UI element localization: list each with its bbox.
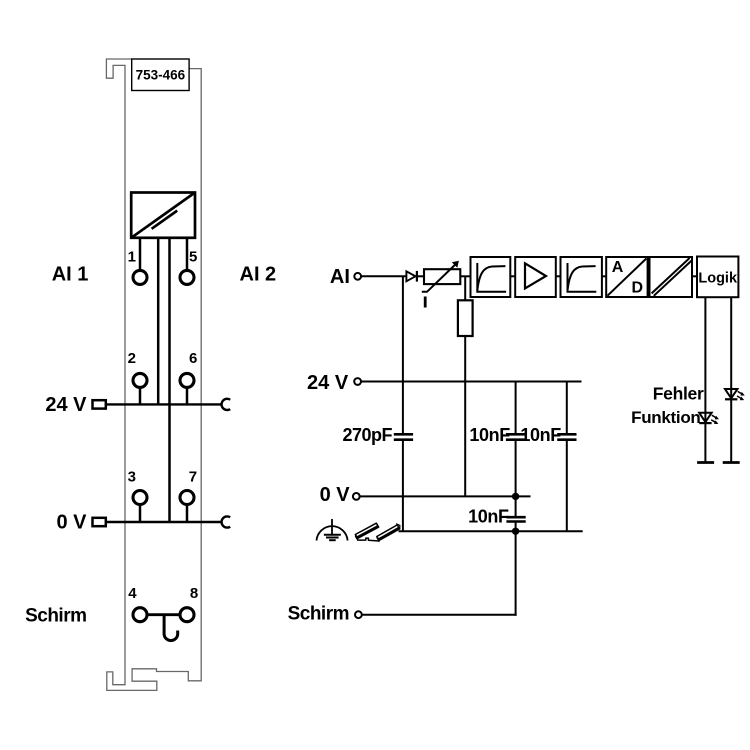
wire stub 1-2 [510,275,515,277]
wire AI to diode [361,275,406,277]
svg-text:Schirm: Schirm [288,604,349,625]
svg-text:270pF: 270pF [342,425,392,445]
wire 24V rail [361,381,581,383]
svg-text:AI 1: AI 1 [52,263,89,285]
capacitor 270pF [394,434,413,439]
wire block1 branch down [464,276,466,300]
svg-text:AI 2: AI 2 [240,263,277,285]
terminal circle 6 [180,373,194,387]
svg-text:2: 2 [128,350,136,367]
wire diode to varistor [417,275,424,277]
svg-text:A: A [612,259,624,276]
terminal circle 5 [180,270,194,284]
0V feed connector [93,518,106,526]
24V feed connector [93,400,106,408]
svg-text:5: 5 [189,249,197,266]
svg-text:Logik: Logik [698,270,738,286]
function block 2 (amplifier) [515,257,556,297]
resistor R1 [458,300,473,336]
wire 0V to 10nF #3 [515,496,517,516]
junction dot rail [512,528,519,535]
svg-text:1: 1 [128,249,136,266]
LED Funktion (left wire) [699,413,719,424]
terminal circle 3 [133,491,147,505]
wire pin5 [186,238,189,270]
diode D1 [406,271,417,282]
svg-text:10nF: 10nF [520,425,561,445]
function block 3 (filter) [561,257,602,297]
DIN rail symbol [355,523,400,542]
shield jumper wire 4-8 [149,613,179,616]
varistor (adjustable) box [422,261,461,292]
node 24V terminal [354,378,361,385]
svg-text:0 V: 0 V [320,484,351,506]
wire 10nF branch 1 [515,382,517,497]
junction dot 0V [512,493,519,500]
svg-text:6: 6 [189,350,197,367]
capacitor 10nF #1 [506,434,525,439]
wire pin6 stub [186,389,189,405]
wire Logik left output [704,297,706,462]
wire 10nF branch 2 [566,382,568,532]
shield hook [164,615,178,641]
node Schirm terminal [355,611,362,618]
terminal circle 2 [133,373,147,387]
wire 10nF #3 to rail [515,523,517,532]
24V pass-through contact [222,399,231,410]
wire varistor to block1 [460,275,470,277]
wire Schirm horizontal [362,614,517,616]
terminal circle 7 [180,491,194,505]
svg-text:D: D [632,279,644,296]
wire Logik right output [730,297,732,462]
LED Fehler (right wire) [725,389,745,400]
0V pass-through contact [222,516,231,527]
wire internal right [168,238,171,522]
svg-text:Schirm: Schirm [25,605,86,626]
svg-text:Fehler: Fehler [653,384,704,404]
svg-text:AI: AI [330,266,350,288]
svg-text:7: 7 [189,469,197,486]
isolation transformer box [131,193,195,238]
function block 5 (isolation) [650,257,693,297]
wire stub 3-4 [602,275,606,277]
svg-text:24 V: 24 V [45,394,87,416]
wire stub 2-3 [556,275,561,277]
svg-text:0 V: 0 V [56,512,87,534]
wire stub 4-5 [648,275,650,277]
svg-text:3: 3 [128,469,136,486]
wire 0V rail [360,495,531,497]
earth symbol [317,519,348,541]
wire internal left [157,238,160,405]
LED return bar right [723,461,740,464]
wire pin2 stub [139,389,142,405]
wire AI branch down [402,276,404,531]
wire pin1 [139,238,142,270]
svg-text:753-466: 753-466 [136,68,186,83]
LED return bar left [697,461,714,464]
label box 753-466 [132,59,189,91]
wire stub 5-6 [692,275,697,277]
svg-text:24 V: 24 V [307,372,349,394]
wire Schirm vertical [515,531,517,615]
svg-text:10nF: 10nF [469,425,510,445]
module outline [106,59,201,690]
wire pin7 stub [186,506,189,522]
wire resistor to 0V [464,336,466,496]
24V feed wire [107,403,222,405]
terminal circle 4 [133,608,147,622]
svg-text:Funktion: Funktion [631,408,700,427]
label I [424,297,427,308]
terminal circle 8 [180,608,194,622]
shield rail wire [399,530,583,532]
capacitor 10nF #2 [557,434,576,439]
function block 4 (A/D converter) [606,257,647,297]
svg-text:4: 4 [128,585,137,602]
terminal circle 1 [133,270,147,284]
0V feed wire [107,521,222,523]
capacitor 10nF #3 [506,517,525,521]
wire pin3 stub [139,506,142,522]
node 0V terminal [353,493,360,500]
function block 1 (filter) [471,257,511,297]
svg-text:10nF: 10nF [468,506,509,526]
svg-text:8: 8 [190,585,198,602]
node AI terminal [354,273,361,280]
function block 6 (Logik) [697,257,738,298]
